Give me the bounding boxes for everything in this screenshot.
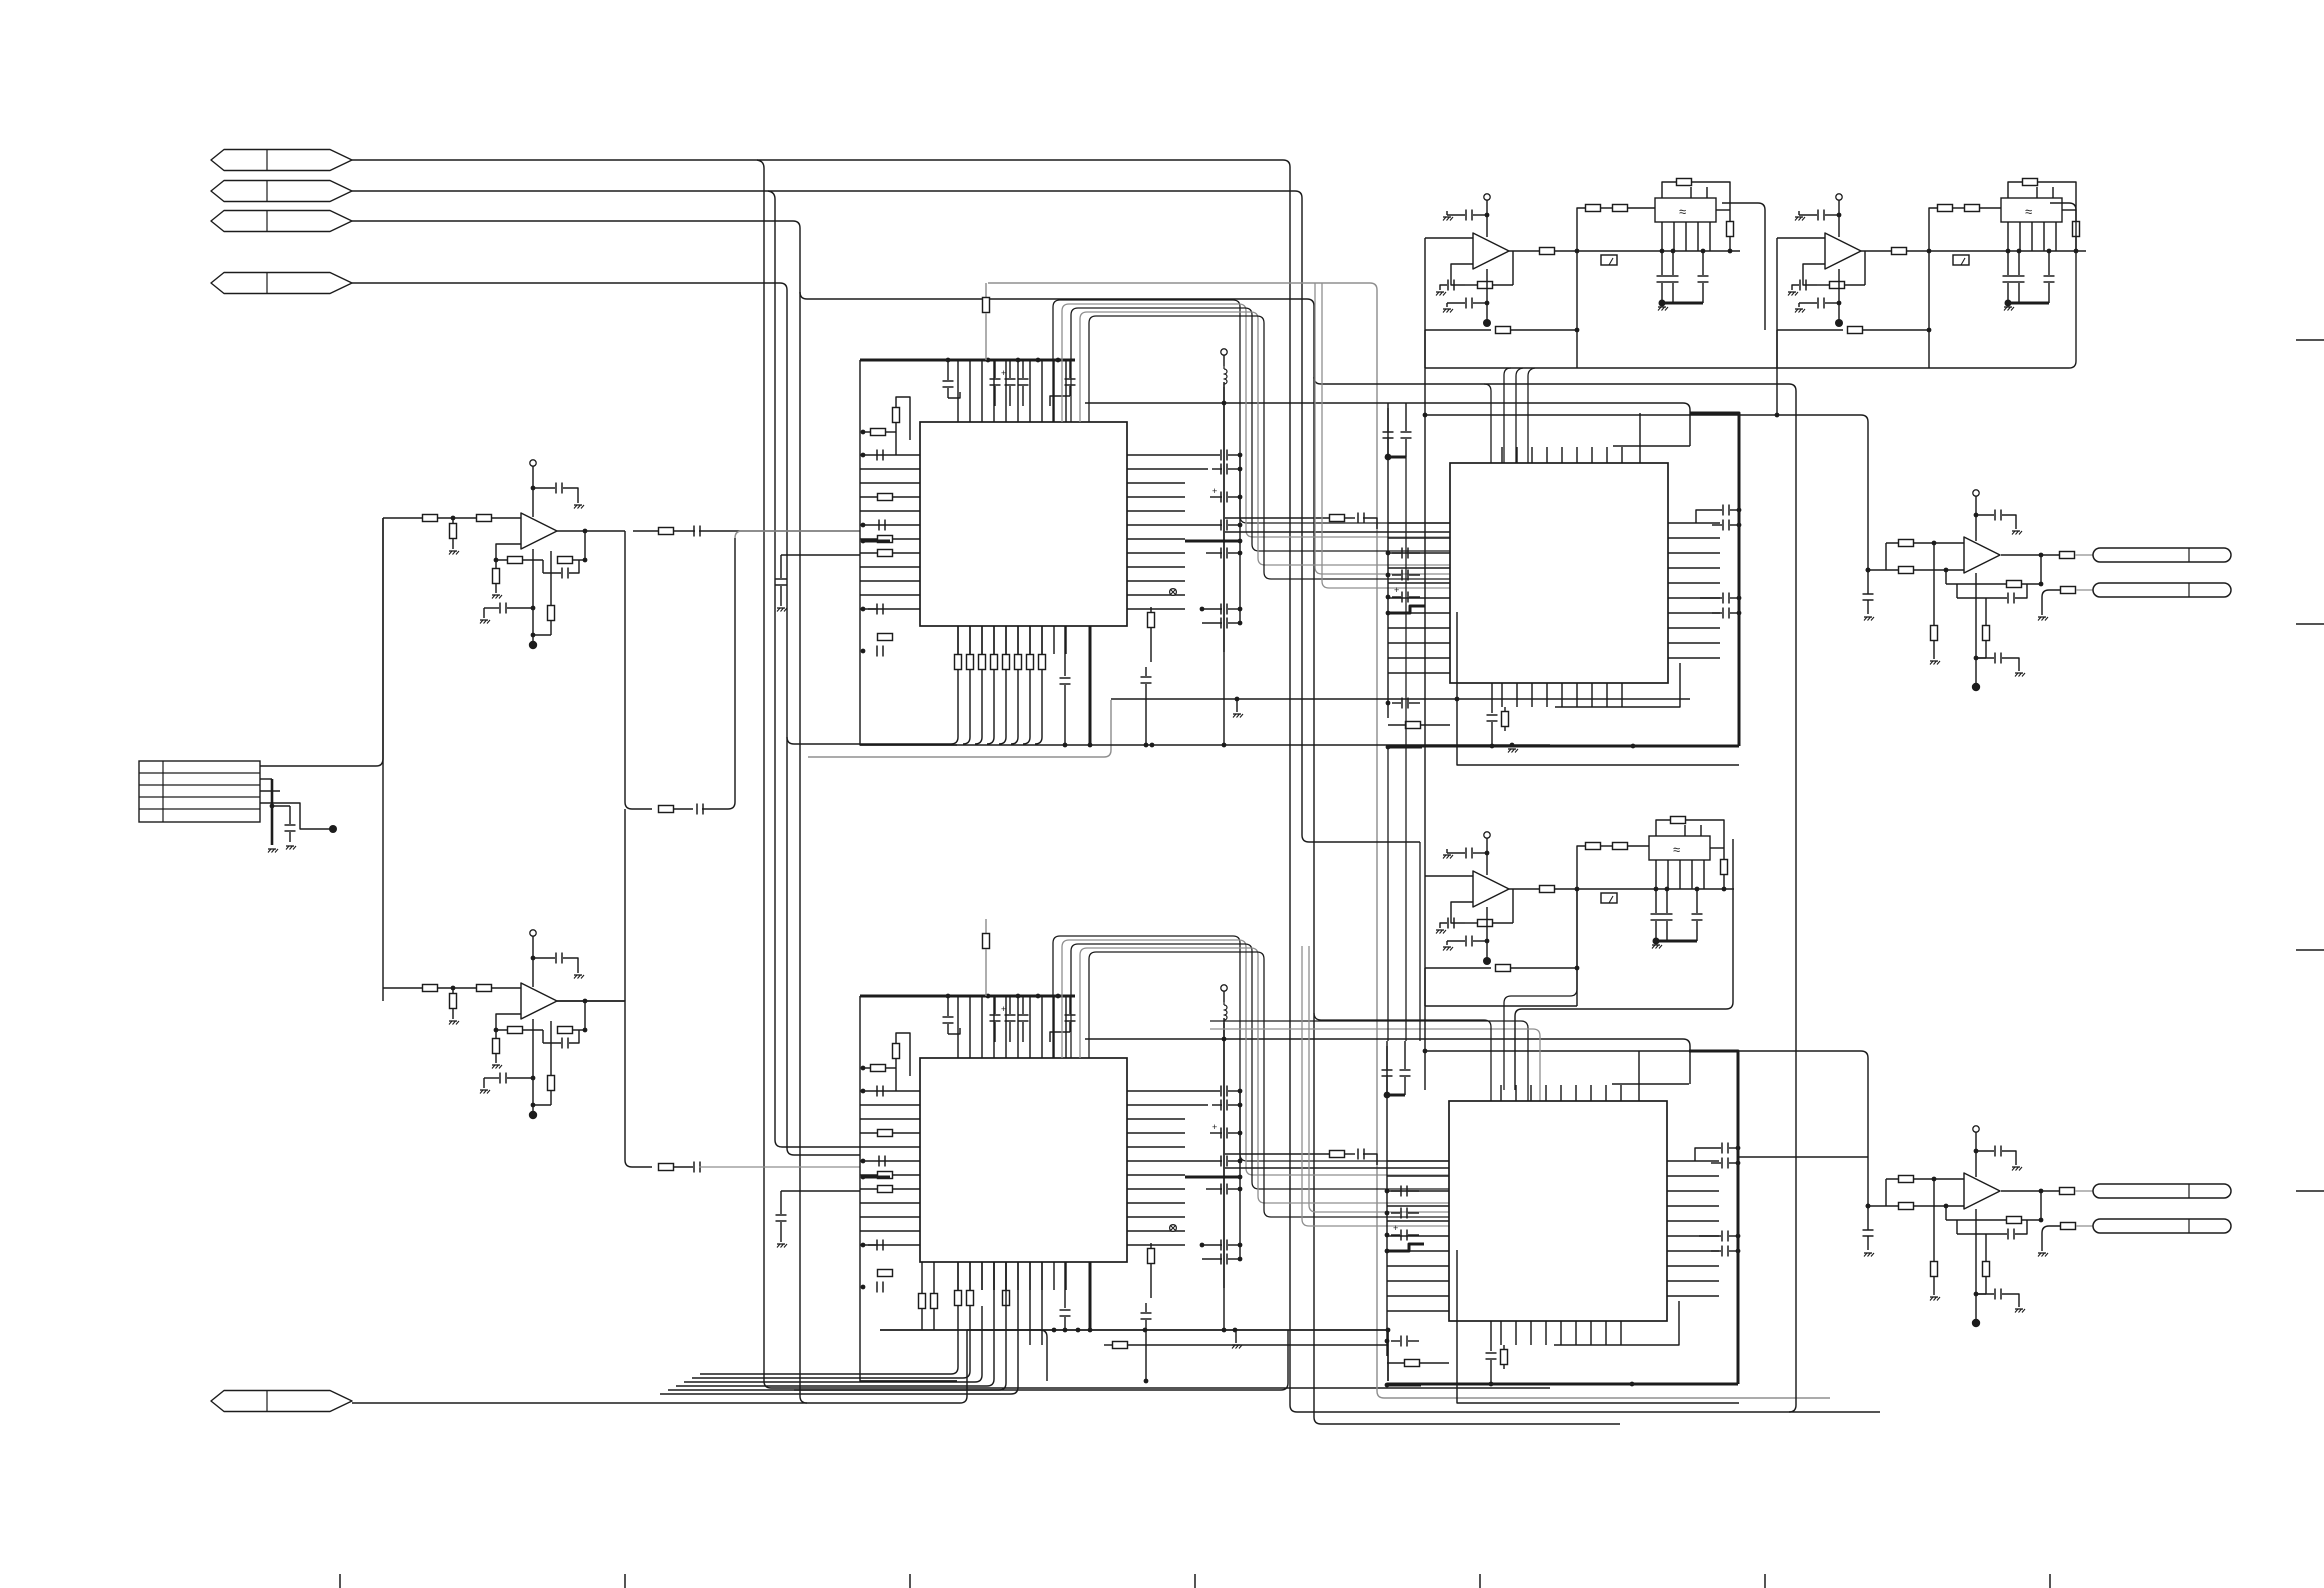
ground F2	[2004, 306, 2012, 308]
wire F3 riser	[1577, 846, 1586, 889]
wire net-E top	[988, 283, 1377, 1391]
wire IC1 vdd bus	[860, 359, 1075, 362]
resistor IC4br	[1503, 1345, 1505, 1349]
power pin IC1	[1221, 349, 1227, 355]
capacitor IC4tl1	[1386, 1041, 1388, 1069]
wire row607	[1322, 283, 1450, 588]
wire IC1 r-bold	[1185, 540, 1240, 543]
capacitor U4c	[1863, 1229, 1874, 1231]
wire IC2 r-bold	[1185, 1176, 1240, 1179]
resistor F2rr	[2062, 209, 2076, 211]
capacitor F2pc	[1799, 211, 1817, 215]
capacitor F1fc2	[1447, 303, 1465, 307]
wire U2 output	[557, 1000, 625, 1002]
wire F2 drop2	[2050, 203, 2076, 368]
capacitor F1pc	[1447, 211, 1465, 215]
wire U1 out node	[624, 531, 626, 802]
svg-text:+: +	[1212, 486, 1217, 496]
connector arrow J4	[211, 273, 352, 294]
resistor F1rr	[1716, 209, 1730, 211]
wire IC2 pwr down	[1223, 1023, 1225, 1330]
wire F2 fb2	[1777, 329, 1843, 331]
resistor F1r3	[1613, 205, 1628, 212]
wire F3 row	[1577, 888, 1734, 890]
inductor IC1	[1224, 366, 1227, 387]
resistor U4rg	[1933, 1179, 1935, 1261]
capacitor F1fc	[1440, 285, 1447, 290]
resistor F2r1	[1892, 248, 1907, 255]
capacitor IC2r4	[1220, 1156, 1222, 1167]
resistor U2r5	[558, 1027, 573, 1034]
sub-node IC1	[1170, 589, 1177, 596]
capacitor IC2tc3	[1009, 996, 1011, 1014]
wire U3 bias	[1975, 573, 1977, 685]
connector arrow J5	[211, 1391, 352, 1412]
IC IC2 top pins	[957, 996, 959, 1058]
capacitor U2a	[533, 957, 555, 959]
capacitor IC1r5	[1220, 548, 1222, 559]
wire F3 fb2	[1425, 967, 1491, 969]
IC IC3 bottom pins	[1501, 683, 1503, 707]
capacitor IC3rc1	[1722, 505, 1724, 516]
capacitor IC1r1	[1185, 454, 1220, 456]
wire row1245	[1302, 946, 1449, 1226]
trimmer F3	[1601, 893, 1617, 903]
ground IC2 bus	[1235, 1332, 1237, 1343]
wire F1 out	[1509, 250, 1539, 252]
wire F1 fb1	[1451, 264, 1473, 285]
capacitor U4cb	[1976, 1293, 1994, 1295]
capacitor IC3tl2	[1405, 403, 1407, 431]
power pin F1	[1484, 194, 1490, 200]
capacitor IC3rc4	[1722, 608, 1724, 619]
wire F1 blktop	[1690, 187, 1692, 198]
wire F2 riser2	[1928, 251, 1930, 368]
resistor R-IC2b	[1113, 1342, 1128, 1349]
node U1n1	[451, 516, 456, 521]
connector arrow J2	[211, 181, 352, 202]
terminal pill P3	[2093, 1184, 2231, 1198]
resistor IC3lr1	[1406, 722, 1421, 729]
resistor network IC2 bottom	[955, 1291, 962, 1306]
resistor U2r7	[550, 1021, 552, 1075]
resistor R31	[1330, 515, 1345, 522]
resistor U2r1	[423, 985, 438, 992]
resistor IC1rt	[985, 283, 987, 297]
resistor IC2l7	[878, 1186, 893, 1193]
capacitor F1b1	[1672, 251, 1674, 275]
filter FLF2	[2001, 198, 2062, 222]
wire U3 inlink	[1885, 543, 1887, 570]
ground row699	[1236, 699, 1238, 712]
wire IC4 lrail	[1386, 1046, 1388, 1356]
wire IC1 l-bold	[863, 540, 890, 543]
resistor IC2l2	[871, 1065, 886, 1072]
wire IC4 l-bold	[1387, 1244, 1424, 1251]
resistor U1r2	[477, 515, 492, 522]
capacitor IC3lc1	[1401, 548, 1403, 559]
wire IC2 bottom bus	[860, 1380, 957, 1382]
capacitor U3cb	[1976, 657, 1994, 659]
capacitor IC2r3	[1220, 1128, 1222, 1139]
capacitor IC2tc4	[1022, 996, 1024, 1014]
node U2n1	[451, 986, 456, 991]
wire F1 bias	[1486, 269, 1488, 321]
wire F2 blktop	[2036, 187, 2038, 198]
wire net-A2 bottom	[1290, 1405, 1880, 1412]
tick marks bottom	[339, 1574, 341, 1588]
resistor IC1l2	[871, 429, 886, 436]
ground CN1	[268, 848, 276, 850]
svg-text:+: +	[1001, 368, 1006, 378]
resistor U1r3	[452, 518, 454, 523]
IC IC3 body	[1450, 463, 1668, 683]
power pin F2	[1836, 194, 1842, 200]
node U3 term	[1972, 683, 1980, 691]
wire IC3 frame	[1690, 413, 1739, 746]
capacitor IC2r5	[1220, 1184, 1222, 1195]
bus to IC4 top	[1210, 1021, 1528, 1101]
capacitor IC2r2	[1185, 1104, 1208, 1106]
resistor F2r3	[1965, 205, 1980, 212]
IC IC4 right pins	[1667, 1160, 1719, 1162]
wire IC4 binner	[1554, 1301, 1679, 1345]
resistor F3fr	[1478, 920, 1493, 927]
wire net-A drop	[757, 160, 1550, 1388]
capacitor IC1r4	[1220, 520, 1222, 531]
wire IC2 frame left	[860, 996, 957, 1381]
wire U4 fbv	[1945, 1206, 1947, 1220]
resistor F1fr	[1478, 282, 1493, 289]
wire F3 drop	[1515, 839, 1733, 1090]
resistor IC3br	[1504, 707, 1506, 711]
wire bottom link2	[880, 1330, 1388, 1381]
IC IC1 bottom pins	[957, 626, 959, 654]
resistor U4ri1	[1899, 1176, 1914, 1183]
wire F3 riser2	[1576, 889, 1578, 1006]
wire F2 gbus	[2008, 302, 2049, 305]
wire U4 in2	[1868, 1205, 1964, 1207]
capacitor U1c3	[484, 607, 499, 609]
node U4 term	[1972, 1319, 1980, 1327]
wire net-J5 run	[352, 1330, 967, 1403]
resistor IC2l1	[893, 1044, 900, 1059]
wire F3 fb1	[1451, 902, 1473, 923]
resistor IC1l4	[878, 494, 893, 501]
wire net-B top	[352, 191, 1302, 835]
svg-text:+: +	[1212, 1122, 1217, 1132]
capacitor IC3rc2	[1722, 520, 1724, 531]
wire IC3 innerframe	[1613, 445, 1690, 447]
wire bottom link1	[967, 1330, 1047, 1381]
resistor F1rtop	[1662, 182, 1676, 198]
capacitor U4cf	[1957, 1233, 2007, 1235]
wire IC4 l-bold2	[1387, 1384, 1421, 1387]
resistor IC4lr1	[1405, 1360, 1420, 1367]
capacitor F3pc	[1447, 849, 1465, 853]
wire CN1 pin1	[260, 518, 383, 766]
node CN1 out	[329, 825, 337, 833]
wire IC4 frame	[1689, 1051, 1738, 1384]
wire U2 fb	[496, 1014, 521, 1030]
IC IC1 top pins	[957, 360, 959, 422]
wire IC1 frame left	[860, 360, 957, 745]
wire row1156	[1225, 1153, 1330, 1155]
capacitor IC4tl2	[1404, 1041, 1406, 1069]
wire F1 blkpins	[1661, 222, 1663, 251]
wire U4 out	[2001, 1190, 2041, 1192]
IC IC2 body	[920, 1058, 1127, 1262]
capacitor IC3bc	[1491, 683, 1493, 713]
capacitor IC1rc	[1145, 667, 1147, 676]
node U1n2	[494, 558, 499, 563]
wire F3 tail	[1425, 968, 1577, 1006]
wire net-E bottom	[1377, 1391, 1830, 1398]
capacitor IC1 bc1	[1064, 626, 1066, 676]
wire CN1 pin2	[260, 778, 272, 780]
wire U2 bias	[532, 1019, 534, 1113]
wire F2 bias	[1838, 269, 1840, 321]
capacitor IC1l5	[878, 520, 880, 531]
resistor U2r4	[508, 1027, 523, 1034]
capacitor IC4lc2	[1400, 1208, 1402, 1219]
capacitor IC1tc5	[1069, 360, 1071, 378]
capacitor IC1l8	[781, 554, 860, 556]
wire net-C top	[352, 221, 807, 1403]
wire U1 out-fb	[584, 531, 586, 560]
resistor IC1l10	[878, 634, 893, 641]
wire IC1 band2	[808, 700, 1111, 757]
capacitor IC3lc3	[1401, 592, 1403, 603]
wire IC2 fan	[957, 1262, 959, 1290]
svg-text:+: +	[1394, 585, 1399, 595]
svg-text:≈: ≈	[1679, 204, 1686, 219]
wire net-A top	[352, 160, 1290, 1405]
resistor IC2l6	[878, 1172, 893, 1179]
resistor U1r6	[495, 560, 497, 568]
power pin IC2	[1221, 985, 1227, 991]
resistor F3r9	[1496, 965, 1511, 972]
capacitor C31	[1357, 513, 1359, 524]
capacitor C27	[693, 1162, 695, 1173]
IC IC4 top pins	[1500, 1085, 1502, 1101]
capacitor IC2tc1	[947, 996, 949, 1016]
capacitor IC2l8	[781, 1190, 860, 1192]
wire frame1337	[1457, 1250, 1739, 1403]
op-amp F1	[1473, 233, 1509, 269]
resistor U3rg	[1933, 543, 1935, 625]
wire U4 bias	[1975, 1209, 1977, 1321]
IC IC2 right pins	[1127, 1090, 1185, 1092]
wire F3 bias	[1486, 907, 1488, 959]
wire IC1 rvert2	[1223, 382, 1225, 652]
wire IC2 l-bold	[863, 1176, 890, 1179]
wire U2 out node	[557, 1001, 652, 1167]
IC IC4 body	[1449, 1101, 1667, 1321]
IC IC1 left pins	[860, 454, 920, 456]
wire U3 out	[2001, 554, 2041, 556]
wire U3 in2	[1868, 569, 1964, 571]
wire net-B2 bottom	[1302, 835, 1420, 842]
wire F2 in	[1777, 237, 1825, 239]
capacitor IC3lc4	[1401, 698, 1403, 709]
wire IC4 rrail	[1737, 1148, 1740, 1261]
wire U2 input	[383, 987, 521, 989]
resistor U4ri2	[1899, 1203, 1914, 1210]
wire IC2 vdd bus	[860, 995, 1075, 998]
resistor U2r2	[477, 985, 492, 992]
capacitor IC2l9	[876, 1240, 878, 1251]
wire IC1 band1	[787, 737, 951, 744]
resistor U4rb	[1985, 1234, 1987, 1261]
capacitor IC2tc2	[994, 996, 996, 1014]
IC IC3 left pins	[1388, 522, 1450, 524]
IC IC2 bottom pins	[957, 1262, 959, 1290]
resistor U4ro2	[2061, 1223, 2076, 1230]
wire row1221	[1309, 946, 1449, 1212]
capacitor U2c2	[542, 1030, 544, 1043]
wire U1 row2	[625, 802, 652, 809]
capacitor IC1r7	[1220, 618, 1222, 629]
resistor F3rr	[1710, 847, 1724, 849]
tick marks right	[2296, 339, 2324, 341]
bus IC2-IC4	[1053, 936, 1449, 1161]
IC IC1 body	[920, 422, 1127, 626]
resistor F3r3	[1613, 843, 1628, 850]
capacitor F2b0	[2007, 251, 2009, 275]
node U1 term	[529, 641, 537, 649]
wire U1 bias	[532, 549, 534, 643]
wire row518	[1225, 517, 1330, 519]
resistor network IC1 bottom	[955, 655, 962, 670]
capacitor U4pc	[1976, 1150, 1994, 1152]
trimmer F2	[1953, 255, 1969, 265]
wire IC1 bold-down	[1089, 626, 1092, 745]
wire F3 blkpins	[1655, 860, 1657, 889]
wire IC1 fan	[957, 626, 959, 654]
wire U1 input	[383, 517, 521, 519]
sub-node IC2	[1170, 1225, 1177, 1232]
wire net-C2 bottom	[1314, 1417, 1620, 1424]
wire U3 in1	[1886, 542, 1964, 544]
wire F3 out	[1509, 888, 1539, 890]
wire net-C spur	[800, 292, 1314, 1417]
terminal pill P4	[2093, 1219, 2231, 1233]
node F1 term	[1483, 319, 1491, 327]
connector block CN1	[139, 761, 260, 822]
resistor R18	[659, 806, 674, 813]
wire F2 invert	[1776, 238, 1778, 415]
wire IC3 l-bold	[1388, 606, 1425, 613]
resistor IC2rt	[985, 919, 987, 933]
svg-text:+: +	[1001, 1004, 1006, 1014]
resistor F3r1	[1540, 886, 1555, 893]
svg-text:≈: ≈	[1673, 842, 1680, 857]
IC IC4 bottom pins	[1500, 1321, 1502, 1345]
wire U3 fbup	[2040, 555, 2042, 584]
capacitor F3fc	[1440, 923, 1447, 928]
wire IC2 rvert	[1239, 1091, 1241, 1259]
resistor U3ri2	[1899, 567, 1914, 574]
op-amp U2	[521, 983, 557, 1019]
wire IC4 innerframe	[1612, 1083, 1689, 1085]
capacitor F3b1	[1666, 889, 1668, 913]
capacitor C18	[696, 804, 698, 815]
wire IC3 bottom bus	[1388, 745, 1739, 748]
wire net-D top	[352, 283, 860, 1155]
wire F2 riser	[1929, 208, 1938, 251]
wire F1 fb2	[1425, 329, 1491, 331]
wire U1 row2b	[735, 531, 860, 538]
resistor U2r6	[495, 1030, 497, 1038]
resistor U3rf	[1946, 583, 2006, 585]
terminal pill P1	[2093, 548, 2231, 562]
resistor IC1rv	[1150, 607, 1152, 612]
capacitor IC2rc	[1145, 1303, 1147, 1312]
op-amp U4	[1964, 1173, 2000, 1209]
capacitor U1c2	[542, 560, 544, 573]
capacitor IC4lc4	[1400, 1336, 1402, 1347]
capacitor IC4lc1	[1400, 1186, 1402, 1197]
resistor U2r3	[452, 988, 454, 993]
wire F1 riser	[1577, 208, 1586, 251]
wire F3 gbus	[1656, 940, 1697, 943]
capacitor IC1r6	[1220, 604, 1222, 615]
wire CN1 pin3	[260, 790, 280, 792]
wire U2 out-fb	[584, 1001, 586, 1030]
capacitor IC3tl1	[1387, 403, 1389, 431]
wire F2 out	[1861, 250, 1891, 252]
capacitor IC1l11	[876, 646, 878, 657]
capacitor IC2l5	[878, 1156, 880, 1167]
wire frame mid2	[1387, 746, 1389, 1041]
wire U1 output	[557, 530, 625, 532]
capacitor IC1r2	[1185, 468, 1208, 470]
resistor U1r4	[508, 557, 523, 564]
resistor F1r1	[1540, 248, 1555, 255]
wire U4 inlink	[1885, 1179, 1887, 1206]
capacitor IC4rc4	[1721, 1246, 1723, 1257]
wire F2 tailv	[1776, 330, 1778, 368]
wire row583	[1315, 283, 1450, 574]
capacitor F3b2	[1696, 889, 1698, 913]
IC IC3 top pins	[1501, 447, 1503, 463]
connector arrow J3	[211, 211, 352, 232]
wire IC2 fanout	[700, 1345, 958, 1374]
capacitor F2fc2	[1799, 303, 1817, 307]
wire frame mid1	[1419, 842, 1421, 1041]
capacitor F2b2	[2048, 251, 2050, 275]
resistor U1r7	[550, 551, 552, 605]
wire F1 riser2	[1576, 251, 1578, 368]
wire U1 fb	[496, 544, 521, 560]
wire F3 drop2	[1504, 889, 1577, 1090]
trimmer F1	[1601, 255, 1617, 265]
resistor IC2l10	[878, 1270, 893, 1277]
wire CN1 gnd bus	[271, 779, 274, 845]
capacitor F1b2	[1702, 251, 1704, 275]
resistor F2rtop	[2008, 182, 2022, 198]
capacitor C41	[1357, 1149, 1359, 1160]
wire F1 gbus	[1662, 302, 1703, 305]
wire IC1 rvert	[1239, 455, 1241, 623]
terminal pill P2	[2093, 583, 2231, 597]
resistor R27	[659, 1164, 674, 1171]
wire bus368	[1425, 367, 2069, 369]
op-amp F3	[1473, 871, 1509, 907]
resistor U3rb	[1985, 598, 1987, 625]
capacitor IC2r6	[1220, 1240, 1222, 1251]
